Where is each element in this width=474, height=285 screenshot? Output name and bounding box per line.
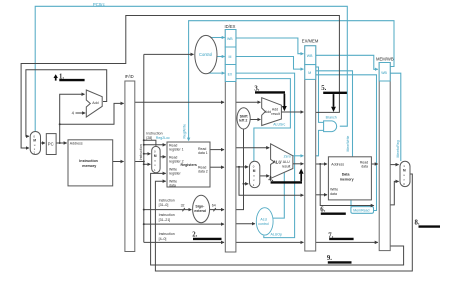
wire PC output to instruction memory address	[56, 142, 67, 144]
ID/EX WB box	[225, 30, 236, 48]
svg-text:MEM/WB: MEM/WB	[376, 56, 394, 61]
wire branch Add result to EX/MEM	[281, 111, 303, 113]
wire branch-target loop: top row back to PC mux input 1	[21, 16, 339, 149]
svg-text:register: register	[169, 172, 182, 176]
wire ALUSrc mux output to ALU input 2	[260, 175, 270, 177]
wire instruction to sign-extend	[144, 209, 192, 211]
svg-text:Add: Add	[92, 101, 98, 105]
svg-text:WB: WB	[227, 37, 233, 41]
svg-text:PCSrc: PCSrc	[93, 2, 105, 7]
svg-text:[31–21]: [31–21]	[159, 218, 171, 222]
wire ALU control output to ALU	[273, 173, 284, 219]
wire PC value into IF/ID	[60, 103, 124, 124]
svg-text:ALU: ALU	[260, 218, 267, 222]
EX/MEM M box	[305, 65, 316, 80]
svg-text:Add: Add	[265, 110, 271, 114]
svg-text:Reg2Loc: Reg2Loc	[156, 136, 170, 140]
blank 4 up arrow	[300, 174, 302, 182]
blank 9 thick line	[328, 261, 352, 263]
svg-text:memory: memory	[340, 177, 354, 181]
node immediate tap	[243, 183, 245, 185]
wire Zero: ALU zero flag into EX/MEM	[293, 155, 304, 157]
svg-text:M: M	[154, 154, 157, 158]
svg-text:4: 4	[72, 111, 75, 116]
svg-text:Instruction: Instruction	[159, 213, 175, 217]
wire Branch: EX/MEM M box to AND gate top input	[316, 67, 324, 122]
wire Read data 1 to ID/EX	[210, 149, 224, 151]
ID/EX pipeline register	[225, 30, 236, 253]
wire instruction to Control	[144, 53, 194, 55]
blank 1 up arrow	[55, 78, 57, 81]
svg-text:ALUOp: ALUOp	[271, 233, 283, 237]
MEM/WB pipeline register	[379, 63, 390, 251]
wire Read data 2 ID/EX to ALUSrc mux input 0	[236, 166, 248, 168]
wire EX/MEM branch target stub under blank 5	[316, 92, 340, 112]
svg-text:WB: WB	[307, 54, 313, 58]
ID/EX EX box	[225, 65, 236, 82]
node PC tap	[59, 142, 61, 144]
label MemRead (boxed)	[351, 207, 374, 214]
node PC-IF/ID tap	[59, 123, 61, 125]
svg-text:data: data	[169, 184, 176, 188]
node ALU result tap	[319, 163, 321, 165]
svg-text:9.: 9.	[327, 255, 332, 262]
svg-text:M: M	[308, 71, 311, 75]
wire Control to ID/EX WB box	[211, 37, 225, 39]
wire PC tap up to Add and IF/ID	[60, 94, 85, 143]
svg-text:WB: WB	[381, 71, 387, 75]
svg-text:control: control	[258, 222, 269, 226]
svg-text:ALU: ALU	[272, 159, 282, 164]
svg-text:32: 32	[181, 204, 185, 208]
wire ALUSrc: ID/EX EX box down to ALU source mux select	[236, 79, 291, 161]
wire 4 constant into Add	[76, 112, 86, 114]
svg-text:Branch: Branch	[326, 116, 337, 120]
wire MemtoReg: MEM/WB WB box to write-back mux select	[390, 73, 401, 161]
adder Add (PC+4)	[86, 90, 102, 117]
PC register	[46, 134, 56, 155]
svg-text:Instruction: Instruction	[146, 131, 162, 135]
wire ALU result loop down to MEM/WB	[320, 164, 374, 206]
blank 3 down arrow	[283, 94, 285, 107]
wire instruction to register mux input 0	[144, 153, 151, 155]
svg-text:64: 64	[212, 204, 216, 208]
svg-text:ALU: ALU	[283, 160, 290, 164]
wire M control: ID/EX M box to EX/MEM M box	[236, 57, 304, 70]
svg-text:EX/MEM: EX/MEM	[302, 39, 319, 44]
wire Control to ID/EX EX box	[208, 72, 225, 74]
blank 1 thick line	[59, 79, 84, 81]
ID/EX M box	[225, 47, 236, 65]
svg-text:8.: 8.	[415, 220, 420, 227]
wire Zero: EX/MEM to AND gate lower input	[316, 130, 324, 155]
wire instruction bus from IF/ID	[135, 161, 144, 163]
svg-text:Sign-: Sign-	[195, 204, 205, 208]
svg-text:M: M	[253, 169, 256, 173]
wire PC+4 loop: Add output back to PC mux input 0	[26, 70, 107, 137]
ALU	[271, 144, 293, 179]
svg-text:result: result	[282, 165, 291, 169]
control unit	[195, 35, 217, 73]
blank 4 thick line	[271, 181, 302, 183]
svg-text:data: data	[330, 192, 337, 196]
sign-extend unit	[193, 195, 210, 222]
svg-text:PC: PC	[48, 142, 54, 147]
wire PC value ID/EX to branch Add	[236, 101, 261, 103]
wire MemRead: EX/MEM M box around data memory to read enable	[316, 75, 377, 211]
svg-text:result: result	[271, 112, 280, 116]
svg-text:register 1: register 1	[169, 148, 184, 152]
svg-text:6.: 6.	[320, 206, 325, 213]
svg-text:MemRead: MemRead	[353, 209, 369, 213]
svg-text:ID/EX: ID/EX	[225, 24, 236, 29]
wire write register number: EX/MEM to MEM/WB	[316, 241, 378, 243]
svg-text:Instruction: Instruction	[159, 198, 175, 202]
wire instruction to register mux input 1	[144, 163, 151, 165]
svg-text:[28]: [28]	[146, 136, 152, 140]
wire ALU result EX/MEM to data memory address	[316, 163, 327, 165]
register file	[167, 142, 210, 187]
svg-text:data 2: data 2	[198, 170, 208, 174]
ALU control unit	[256, 208, 273, 235]
blank 5 thick line	[323, 92, 347, 94]
wire PC value IF/ID to ID/EX	[135, 101, 224, 103]
svg-text:7.: 7.	[328, 233, 333, 240]
wire RegWrite: MEM/WB WB box right, up over the top, down to Registers	[189, 21, 394, 141]
EX/MEM pipeline register	[305, 46, 316, 251]
svg-text:Shift: Shift	[240, 114, 249, 118]
wire Read data 2 to ID/EX	[210, 166, 224, 168]
node read data 2 tap	[238, 166, 240, 168]
data memory	[328, 157, 371, 200]
wire WB control: ID/EX WB box to EX/MEM WB box	[236, 38, 304, 54]
wire Reg2Loc select from instruction bus to register mux	[144, 140, 156, 146]
wire sign-extend output to ID/EX	[210, 209, 224, 211]
svg-text:[4–0]: [4–0]	[159, 237, 167, 241]
svg-text:M: M	[33, 139, 36, 143]
svg-text:3.: 3.	[254, 86, 259, 93]
svg-text:Control: Control	[199, 52, 212, 57]
wire write register number loop back to Write register	[151, 173, 404, 265]
wire sign-extended immediate ID/EX to shift-left-2 and mux	[236, 129, 244, 209]
blank 5 down arrow	[333, 94, 335, 107]
svg-text:M: M	[403, 169, 406, 173]
svg-text:IF/ID: IF/ID	[125, 74, 134, 79]
svg-text:5.: 5.	[321, 85, 326, 92]
wire MemWrite: EX/MEM M box down to data memory write enable	[316, 71, 353, 157]
svg-text:data 1: data 1	[198, 151, 208, 155]
svg-text:Registers: Registers	[181, 163, 197, 167]
svg-text:left 2: left 2	[239, 119, 247, 123]
node bus taps	[143, 139, 145, 141]
wire data memory read data to MEM/WB	[371, 163, 377, 165]
wire shift-left-2 output to branch Add	[250, 119, 260, 121]
svg-text:2.: 2.	[192, 232, 197, 239]
wire PC mux output to PC	[41, 142, 45, 144]
MEM/WB WB box	[379, 63, 390, 82]
instruction memory	[68, 140, 113, 186]
svg-text:M: M	[229, 55, 232, 59]
shift left 2 unit	[237, 108, 250, 129]
blank 6 thick line	[321, 212, 346, 214]
svg-text:RegWrite: RegWrite	[183, 124, 187, 139]
svg-text:Address: Address	[70, 141, 83, 145]
wire ALU result to EX/MEM	[293, 163, 304, 165]
svg-text:[31–0]: [31–0]	[159, 203, 169, 207]
wire write register number: ID/EX to EX/MEM	[236, 241, 304, 243]
blank 7 thick line	[329, 238, 353, 240]
svg-text:Zero: Zero	[284, 154, 291, 158]
wire instruction [31-21] ID/EX to ALU control	[236, 223, 255, 225]
wire Read data 2 down to EX/MEM write data	[239, 167, 303, 195]
AND gate (branch)	[324, 121, 337, 132]
wire write-back mux output loop to Write data	[155, 174, 412, 271]
wire Read data 1 ID/EX to ALU input 1	[236, 147, 269, 149]
svg-text:data: data	[361, 165, 368, 169]
svg-text:Add: Add	[272, 107, 278, 111]
wire ALUOp: ID/EX EX box down to ALU control	[236, 73, 295, 238]
wire instruction [4-0] to ID/EX	[144, 241, 224, 243]
svg-text:ALUSrc: ALUSrc	[273, 122, 285, 126]
blank 2 thick line	[193, 238, 222, 240]
blank 3 thick line	[255, 91, 285, 93]
svg-text:Instruction: Instruction	[79, 159, 98, 163]
svg-text:4.: 4.	[268, 176, 273, 183]
wire instruction to Read register 1	[144, 144, 166, 146]
svg-text:EX: EX	[228, 72, 233, 76]
ALU source mux	[250, 161, 260, 187]
IF/ID pipeline register	[125, 81, 135, 252]
wire MEM/WB ALU result to write-back mux input 0	[390, 181, 398, 205]
wire instruction [31-21] to ID/EX	[144, 223, 224, 225]
blank 8 thick line	[419, 225, 441, 227]
wire WB control: EX/MEM WB box to MEM/WB WB box	[316, 55, 378, 69]
svg-text:extend: extend	[194, 209, 206, 213]
write-back mux	[400, 161, 410, 186]
svg-text:MemtoReg: MemtoReg	[396, 140, 400, 157]
svg-text:Instruction: Instruction	[159, 232, 175, 236]
wire instruction memory output to IF/ID	[113, 161, 124, 163]
svg-text:Address: Address	[331, 163, 344, 167]
wire MEM/WB read data to write-back mux input 1	[390, 164, 398, 166]
wire register mux output to Read register 2	[160, 156, 166, 158]
register-source mux (Reg2Loc)	[152, 146, 160, 172]
svg-text:Data: Data	[342, 173, 351, 177]
PC mux	[30, 132, 40, 155]
branch adder	[262, 98, 282, 126]
svg-text:memory: memory	[82, 164, 96, 168]
wire immediate to ALUSrc mux input 1	[244, 183, 249, 185]
wire EX/MEM write data to data memory	[316, 194, 327, 196]
wire Control to ID/EX M box	[217, 56, 225, 58]
svg-text:Instruction: Instruction	[139, 144, 143, 160]
EX/MEM WB box	[305, 46, 316, 65]
svg-text:MemWrite: MemWrite	[346, 136, 350, 152]
wire PCSrc: AND gate output up and back to PC mux select	[35, 6, 347, 131]
